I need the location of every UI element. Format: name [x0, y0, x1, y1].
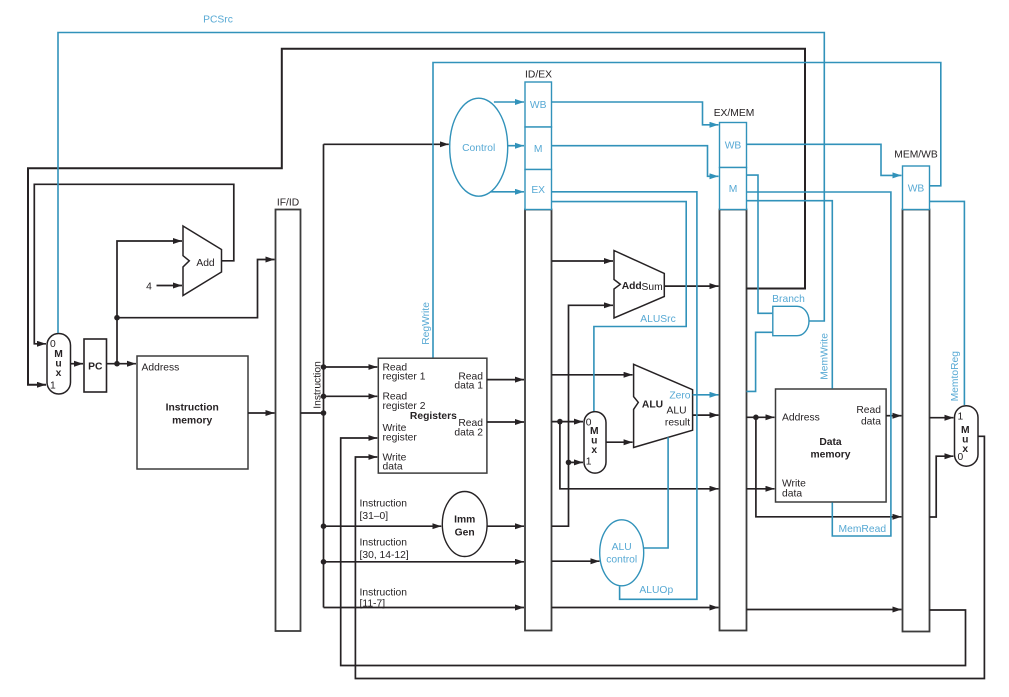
wire RegWrite MEM/WB to Registers: [433, 63, 941, 358]
mux M1 (PC source mux): [47, 334, 71, 395]
wire MemRead M to data memory: [746, 192, 891, 536]
control box MEM/WB WB: [903, 166, 930, 210]
AND gate (branch): [773, 306, 809, 335]
wire Read data 2 down to EX/MEM write data: [560, 422, 719, 489]
wire write register number back to Registers: [341, 438, 966, 666]
wire ALU control to ALU: [644, 437, 669, 548]
svg-text:x: x: [56, 368, 62, 379]
svg-text:Sum: Sum: [642, 282, 663, 293]
svg-text:WB: WB: [725, 141, 742, 152]
wire MemWrite M to data memory: [746, 201, 832, 389]
svg-text:data 1: data 1: [454, 381, 483, 392]
wire instruction to Read register 2: [324, 395, 378, 397]
svg-text:x: x: [962, 444, 968, 455]
node instruction 30,14-12: [321, 559, 327, 565]
svg-text:M: M: [729, 184, 738, 195]
wire write data EX/MEM to data memory: [746, 488, 774, 490]
wire write register number ID/EX to EX/MEM: [552, 607, 719, 609]
imm gen oval: [442, 492, 487, 557]
wire ALUOp EX to ALU control: [552, 192, 697, 600]
wire Read data 1 from ID/EX to ALU: [552, 374, 633, 376]
wire Imm Gen to ID/EX: [487, 525, 524, 527]
wire PC from ID/EX to Add Sum: [552, 260, 613, 262]
svg-text:Control: Control: [462, 143, 495, 154]
svg-text:IF/ID: IF/ID: [277, 198, 299, 209]
svg-text:x: x: [591, 445, 597, 456]
wire Control to ID/EX WB: [494, 101, 524, 103]
svg-text:1: 1: [586, 457, 592, 468]
wire ALU result bypass to MEM/WB: [756, 417, 902, 517]
svg-text:register 1: register 1: [383, 372, 426, 383]
wire Read data 2 from ID/EX to mux M2 input 0: [552, 421, 583, 423]
svg-text:MemtoReg: MemtoReg: [950, 351, 961, 402]
wire WB ID/EX to EX/MEM: [552, 102, 719, 125]
svg-text:data 2: data 2: [454, 427, 483, 438]
control box ID/EX EX: [525, 170, 552, 210]
wire PC to IF/ID: [117, 260, 275, 318]
svg-text:Data: Data: [819, 437, 842, 448]
svg-text:[11-7]: [11-7]: [360, 598, 386, 609]
wire ALUSrc EX to mux M2 select: [552, 202, 687, 411]
svg-text:Instruction: Instruction: [360, 538, 408, 549]
svg-text:ALU: ALU: [666, 406, 686, 417]
wire mux M1 to PC: [71, 363, 84, 365]
node PC tap to IF/ID: [114, 315, 120, 321]
svg-text:[31–0]: [31–0]: [360, 511, 389, 522]
svg-text:[30, 14-12]: [30, 14-12]: [360, 550, 409, 561]
svg-text:data: data: [861, 416, 881, 427]
data memory: [776, 389, 887, 502]
svg-text:ALUSrc: ALUSrc: [640, 314, 675, 325]
wire immediate from ID/EX up to Add Sum bottom input: [552, 305, 613, 526]
svg-text:PC: PC: [88, 362, 103, 373]
adder Add (PC+4): [183, 226, 222, 296]
svg-text:PCSrc: PCSrc: [203, 15, 233, 26]
pipeline register MEM/WB: [903, 210, 930, 632]
svg-text:Address: Address: [142, 362, 180, 373]
svg-text:MemWrite: MemWrite: [820, 333, 831, 380]
registers file: [378, 358, 487, 473]
node PC out: [114, 361, 120, 367]
wire ALU result EX/MEM to data memory Address: [746, 416, 774, 418]
node ALU result fork: [753, 415, 759, 421]
svg-text:Instruction: Instruction: [313, 361, 324, 409]
wire Read data memory to MEM/WB: [886, 415, 901, 417]
svg-text:MEM/WB: MEM/WB: [894, 150, 938, 161]
svg-text:register: register: [383, 432, 418, 443]
svg-text:RegWrite: RegWrite: [421, 302, 432, 345]
svg-text:Add: Add: [622, 281, 642, 292]
wire 4 to Add: [157, 285, 183, 287]
control unit oval: [450, 98, 508, 196]
svg-text:memory: memory: [810, 450, 850, 461]
wire MemtoReg MEM/WB to mux M3 select: [930, 201, 965, 405]
wire instruction memory to IF/ID: [248, 412, 275, 414]
wire Zero EX/MEM to AND gate: [746, 332, 772, 391]
svg-text:ALU: ALU: [642, 399, 663, 410]
wire ALU result to EX/MEM: [693, 414, 719, 416]
svg-text:1: 1: [958, 412, 964, 423]
svg-text:M: M: [534, 144, 543, 155]
wire Add Sum to EX/MEM: [664, 285, 718, 287]
svg-text:Instruction: Instruction: [360, 499, 408, 510]
pipeline register ID/EX: [525, 210, 552, 631]
svg-text:Add: Add: [196, 258, 215, 269]
node read data 2 fork: [557, 419, 563, 425]
wire IF/ID instruction out to vertical bus: [301, 412, 324, 414]
node instruction read reg 1: [321, 364, 327, 370]
wire M ID/EX to EX/MEM: [552, 146, 719, 177]
ALU control oval: [600, 520, 644, 586]
svg-text:Read: Read: [856, 405, 881, 416]
wire instruction to Control: [324, 143, 449, 145]
wire branch target feedback EX/MEM to mux M1 input 1: [28, 49, 805, 385]
instruction memory: [137, 356, 248, 469]
wire WB EX/MEM to MEM/WB: [746, 144, 901, 175]
mux M3 (MemtoReg mux): [955, 406, 979, 467]
wire Read data 2 to ID/EX: [487, 421, 524, 423]
svg-text:data: data: [383, 462, 403, 473]
wire instruction to Read register 1: [324, 366, 378, 368]
svg-text:ALUOp: ALUOp: [639, 585, 673, 596]
svg-text:result: result: [665, 418, 690, 429]
svg-text:WB: WB: [908, 183, 925, 194]
wire MEM/WB ALU result to mux M3 input 0: [930, 456, 954, 517]
wire Control to ID/EX M: [508, 145, 524, 147]
wire Zero ALU to EX/MEM: [693, 394, 719, 396]
wire mux M2 to ALU: [606, 441, 633, 443]
wire instruction [30,14-12] to ID/EX: [324, 561, 525, 563]
wire instruction [31-0] to Imm Gen: [324, 525, 442, 527]
wire write register number EX/MEM to MEM/WB: [746, 609, 901, 611]
svg-text:Gen: Gen: [455, 528, 475, 539]
svg-text:Branch: Branch: [772, 294, 805, 305]
svg-text:ALU: ALU: [612, 542, 632, 553]
svg-text:Imm: Imm: [454, 515, 475, 526]
wire instruction vertical bus: [323, 144, 325, 607]
wire Control to ID/EX EX: [491, 191, 524, 193]
svg-text:Address: Address: [782, 413, 820, 424]
wire instruction [11-7] to ID/EX: [324, 607, 525, 609]
node instruction read reg 2: [321, 394, 327, 400]
node instruction bus join: [321, 410, 327, 416]
wire mux M3 write back data to Registers: [355, 436, 984, 678]
control box EX/MEM M: [720, 168, 747, 210]
wire PC up to Add top input: [117, 241, 182, 364]
control box ID/EX WB: [525, 82, 552, 127]
wire PC+4 from Add to mux M1 input 0: [34, 184, 234, 343]
node immediate fork: [566, 460, 572, 466]
node instruction 31-0: [321, 523, 327, 529]
svg-text:control: control: [606, 555, 637, 566]
wire funct field from ID/EX to ALU control: [552, 560, 600, 562]
svg-text:Zero: Zero: [669, 391, 690, 402]
svg-text:Registers: Registers: [410, 411, 457, 422]
svg-text:Instruction: Instruction: [360, 588, 408, 599]
wire PCSrc from AND gate to mux M1 select: [58, 33, 824, 334]
pipeline register IF/ID: [276, 210, 301, 632]
svg-text:memory: memory: [172, 416, 212, 427]
wire Branch M to AND gate: [746, 175, 772, 313]
wire MEM/WB read data to mux M3 input 1: [930, 417, 954, 419]
svg-text:Instruction: Instruction: [166, 403, 219, 414]
ALU: [634, 364, 693, 447]
svg-text:EX: EX: [531, 185, 545, 196]
wire immediate to mux M2 input 1: [569, 461, 584, 463]
adder Add Sum (branch target): [614, 251, 664, 319]
svg-text:EX/MEM: EX/MEM: [714, 108, 755, 119]
wire PC to instruction memory Address: [107, 363, 137, 365]
pipeline register EX/MEM: [720, 210, 747, 631]
svg-text:0: 0: [958, 452, 964, 463]
svg-text:ID/EX: ID/EX: [525, 70, 552, 81]
wire Read data 1 to ID/EX: [487, 379, 524, 381]
control box EX/MEM WB: [720, 123, 747, 168]
svg-text:MemRead: MemRead: [839, 524, 887, 535]
svg-text:data: data: [782, 489, 802, 500]
mux M2 (ALUSrc mux): [584, 412, 606, 474]
register PC: [84, 339, 107, 392]
svg-text:WB: WB: [530, 100, 547, 111]
svg-text:1: 1: [50, 381, 56, 392]
control box ID/EX M: [525, 127, 552, 170]
svg-text:4: 4: [146, 282, 152, 293]
